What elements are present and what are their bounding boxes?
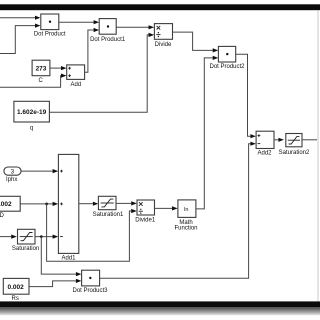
junction on D wire — [45, 203, 48, 206]
svg-text:Add: Add — [71, 82, 82, 88]
svg-text:Add2: Add2 — [257, 150, 272, 156]
svg-text:0.002: 0.002 — [0, 201, 12, 208]
wire Rs to Dot Product3 in2 — [29, 281, 76, 287]
math function ln block — [178, 200, 196, 218]
svg-text:Saturation2: Saturation2 — [279, 150, 310, 156]
svg-text:Divide: Divide — [155, 42, 172, 48]
svg-text:Dot Product2: Dot Product2 — [209, 64, 245, 70]
wire into Saturation — [0, 236, 11, 238]
add block — [67, 65, 85, 80]
dot product U1 — [41, 14, 59, 30]
svg-text:Dot Product1: Dot Product1 — [90, 37, 126, 43]
add1 sum block — [58, 154, 78, 253]
branch Saturation to Dot Product3 in1 — [41, 237, 76, 275]
svg-text:0.002: 0.002 — [7, 284, 24, 291]
wire Dot Product3 to Add2 in2 — [100, 144, 251, 279]
svg-text:273: 273 — [36, 65, 47, 72]
wire Add to Dot Product1 in2 — [85, 30, 94, 72]
dot product1 U2 — [99, 19, 116, 35]
wire Iphx to Add1 — [21, 170, 53, 172]
constant D 0.002 (clipped) — [0, 196, 20, 211]
saturation2 block — [286, 134, 302, 147]
svg-text:Saturation: Saturation — [12, 246, 39, 252]
svg-text:Rs: Rs — [12, 296, 19, 302]
wire Dot Product1 to Divide — [116, 26, 148, 28]
dot product2 — [218, 46, 235, 62]
wire Add2 to Saturation2 — [274, 139, 278, 141]
bottom frame bar — [0, 301, 320, 307]
constant 273 — [32, 60, 50, 75]
wire into Dot Product in1 — [0, 17, 35, 19]
svg-text:D: D — [0, 213, 4, 219]
wire Saturation to Add1 in3 with branch — [35, 236, 53, 238]
wire into Dot Product in2 — [0, 26, 35, 54]
svg-text:1.602e-19: 1.602e-19 — [17, 109, 47, 116]
saturation1 block — [98, 196, 116, 209]
right frame edge — [317, 10, 319, 301]
dot product3 — [82, 270, 100, 286]
constant q 1.602e-19 — [14, 101, 50, 122]
svg-text:Divide1: Divide1 — [135, 217, 156, 223]
svg-text:q: q — [30, 126, 33, 132]
wire Dot Product2 to Add2 — [236, 54, 251, 136]
wire Add1 to Saturation1 — [79, 203, 93, 205]
svg-text:Add1: Add1 — [61, 256, 76, 262]
svg-text:ln: ln — [184, 207, 188, 213]
input port Iphx — [4, 167, 21, 175]
wire Divide1 to Math Function — [155, 207, 173, 209]
top frame bar — [0, 4, 320, 10]
divide1 block — [137, 200, 155, 215]
constant Rs 0.002 — [3, 278, 29, 294]
wire into Add in2 — [0, 76, 61, 88]
svg-text:Dot Product3: Dot Product3 — [72, 288, 108, 294]
junction on Saturation wire — [40, 235, 43, 238]
add2 block — [256, 131, 274, 148]
wire q to Divide in2 — [49, 35, 148, 112]
wire Saturation1 to Divide1 — [116, 202, 131, 204]
wire 273 to Add — [50, 67, 61, 69]
saturation block — [18, 229, 36, 244]
wire Dot Product to Dot Product1 — [59, 21, 94, 23]
svg-text:Iphx: Iphx — [6, 177, 17, 183]
branch D to Divide1 in2 — [47, 204, 132, 261]
svg-text:Function: Function — [174, 225, 197, 231]
svg-text:Dot Product: Dot Product — [34, 32, 66, 38]
wire Math Function to Dot Product2 in2 — [196, 58, 213, 209]
svg-text:C: C — [39, 78, 44, 84]
wire D to Add1 in2 with branch to Divide1 — [20, 203, 52, 205]
divide block — [154, 24, 172, 40]
bottom frame shadow — [0, 307, 320, 315]
wire Saturation2 to edge — [302, 139, 317, 141]
wire Divide to Dot Product2 — [173, 32, 213, 50]
svg-text:Saturation1: Saturation1 — [93, 212, 124, 218]
